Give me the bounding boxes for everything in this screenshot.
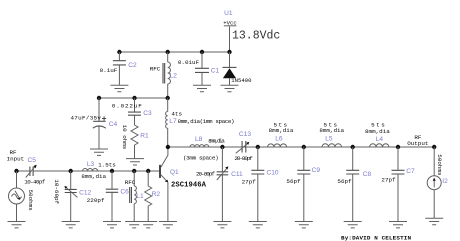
svg-text:56pf: 56pf [286,178,301,185]
svg-text:27pf: 27pf [242,179,257,186]
svg-text:4ts: 4ts [171,111,182,118]
svg-text:C11: C11 [231,171,243,178]
svg-text:13.8Vdc: 13.8Vdc [232,30,280,43]
wire second rail y=98 [99,97,168,99]
svg-text:C4: C4 [109,121,118,128]
capacitor C4 47uF/35v electrolytic [93,98,106,149]
capacitor C11 variable 20-80pf [217,147,229,222]
svg-text:8mm,dia: 8mm,dia [319,127,344,134]
svg-text:C8: C8 [363,171,372,178]
capacitor C8 56pf [346,147,359,222]
ground C9 [295,222,313,228]
inductor L3 1.5ts [83,169,98,172]
svg-text:R2: R2 [152,191,161,198]
node dot out-C7 [396,145,400,149]
svg-text:Output: Output [407,140,428,147]
node dot out-C8 [351,145,355,149]
svg-text:C3: C3 [143,110,152,117]
svg-text:C9: C9 [312,167,321,174]
svg-text:C12: C12 [79,189,91,196]
svg-text:L3: L3 [87,161,95,168]
svg-text:20-80pf: 20-80pf [234,155,253,162]
svg-text:220pf: 220pf [87,197,105,204]
svg-text:(3mm space): (3mm space) [183,155,219,162]
node dot out-I2 [432,145,436,149]
svg-text:RFC: RFC [125,179,136,186]
svg-text:C2: C2 [128,62,137,69]
capacitor C6 220pf [106,171,118,222]
svg-text:L2: L2 [170,73,178,80]
ground Q1 emitter [159,222,177,228]
node dot rail-D1 [227,50,231,54]
svg-text:C6: C6 [120,188,129,195]
ground C12 [62,222,80,228]
ground I2 [425,218,443,224]
svg-text:1N5400: 1N5400 [231,77,252,84]
svg-text:L1: L1 [136,193,144,200]
svg-text:8mm,dia: 8mm,dia [269,127,294,134]
svg-text:2SC1946A: 2SC1946A [171,181,207,189]
svg-text:C13: C13 [239,131,251,138]
node dot in-R2 [146,169,150,173]
node dot rail-C1 [200,50,204,54]
node dot rail-L2 [166,50,170,54]
svg-text:Q1: Q1 [170,169,179,176]
ground C7 [389,222,407,228]
svg-text:10-60pf: 10-60pf [53,179,60,204]
svg-text:56pf: 56pf [337,178,352,185]
ground I1 [8,222,26,228]
wire top power rail y=52 [119,51,229,53]
capacitor C2 0.1uF [113,52,126,85]
svg-text:8mm,dia(1mm space): 8mm,dia(1mm space) [178,118,235,125]
node dot rail2-C3 [132,96,136,100]
svg-text:0.1uF: 0.1uF [100,67,118,74]
ground C1 [193,85,211,91]
node dot out-C9 [302,145,306,149]
ground L1 [125,222,143,228]
ground C6 [103,222,121,228]
svg-text:RFC: RFC [150,66,161,73]
svg-text:L7: L7 [169,118,177,125]
resistor R1 10 ohms [131,125,138,159]
node dot out-C11 [220,145,224,149]
source I1 50ohms [9,171,25,222]
capacitor C12 variable 10-60pf [64,171,77,222]
inductor L2 RFC [163,52,170,98]
ground R2 [139,222,157,228]
wire Vcc stub [229,27,231,53]
svg-text:L5: L5 [325,136,333,143]
inductor L1 RFC [130,171,137,222]
inductor L4 5ts [370,144,389,147]
capacitor C1 0.01uF [195,52,209,85]
ground R1 [126,159,144,165]
svg-text:8mm,dia: 8mm,dia [365,128,390,135]
svg-text:20-80pf: 20-80pf [196,170,215,177]
capacitor C9 56pf [297,147,310,222]
svg-text:I2: I2 [442,178,448,185]
ground C4 [90,149,108,155]
capacitor C5 variable 10-40pf [26,165,37,178]
node dot in-I1 [14,169,18,173]
svg-text:0.022uF: 0.022uF [112,103,142,110]
svg-text:8mm,dia: 8mm,dia [81,173,106,180]
svg-text:1.5ts: 1.5ts [98,161,116,168]
svg-text:C5: C5 [28,157,37,164]
svg-text:0.01uF: 0.01uF [178,59,200,66]
wire input line y=171 [17,170,160,172]
svg-text:C7: C7 [406,168,415,175]
svg-text:Input: Input [7,155,25,162]
diode D1 1N5400 [223,52,237,85]
svg-text:L4: L4 [376,136,384,143]
svg-text:R1: R1 [140,132,149,139]
node dot in-C6 [110,169,114,173]
svg-text:10-40pf: 10-40pf [24,179,45,186]
inductor L7 4ts [166,98,168,147]
resistor R2 [145,171,152,222]
node dot rail2-L7 [166,96,170,100]
svg-text:C10: C10 [267,169,279,176]
inductor L8 [190,145,209,147]
node dot rail-C2 [117,50,121,54]
node dot rail2-C4 [97,96,101,100]
svg-text:U1: U1 [224,10,233,17]
inductor L6 5ts [268,144,287,147]
source I2 50ohms [427,147,441,218]
inductor L5 5ts [322,144,342,147]
transistor Q1 2SC1946A [160,147,168,222]
svg-text:L8: L8 [195,136,203,143]
capacitor C10 27pf [251,147,264,222]
ground C2 [110,85,128,91]
svg-text:50ohms: 50ohms [27,190,34,212]
node dot out-L7 [166,145,170,149]
ground C10 [249,222,267,228]
svg-text:27pf: 27pf [381,177,396,184]
capacitor C13 variable 20-80pf [236,141,250,153]
svg-text:L6: L6 [275,136,283,143]
svg-text:8mm,dia: 8mm,dia [208,138,225,145]
capacitor C3 0.022uF [128,98,141,125]
node dot in-C12 [69,169,73,173]
wire output line y=147 [168,146,434,148]
ground C11 [213,222,231,228]
svg-text:10 ohms: 10 ohms [121,125,128,150]
svg-text:50ohms: 50ohms [436,154,443,176]
node dot in-L1 [132,169,136,173]
svg-text:47uF/35v: 47uF/35v [70,115,101,122]
svg-text:C1: C1 [211,68,220,75]
node dot out-C10 [256,145,260,149]
ground C8 [344,222,362,228]
capacitor C7 27pf [392,147,405,222]
svg-text:By:DAVID N CELESTIN: By:DAVID N CELESTIN [341,234,411,241]
ground D1 [221,85,239,91]
